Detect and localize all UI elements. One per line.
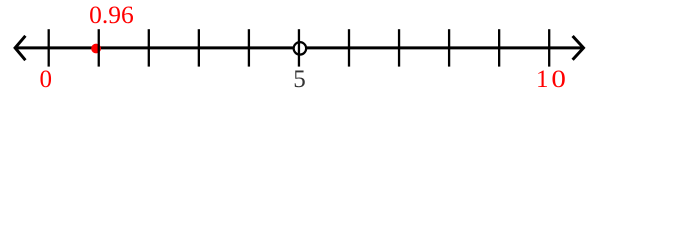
svg-text:0.96: 0.96 — [89, 0, 134, 29]
svg-text:5: 5 — [293, 66, 306, 93]
svg-text:0: 0 — [40, 66, 53, 93]
svg-text:1: 1 — [536, 66, 549, 93]
svg-text:0: 0 — [551, 65, 565, 93]
